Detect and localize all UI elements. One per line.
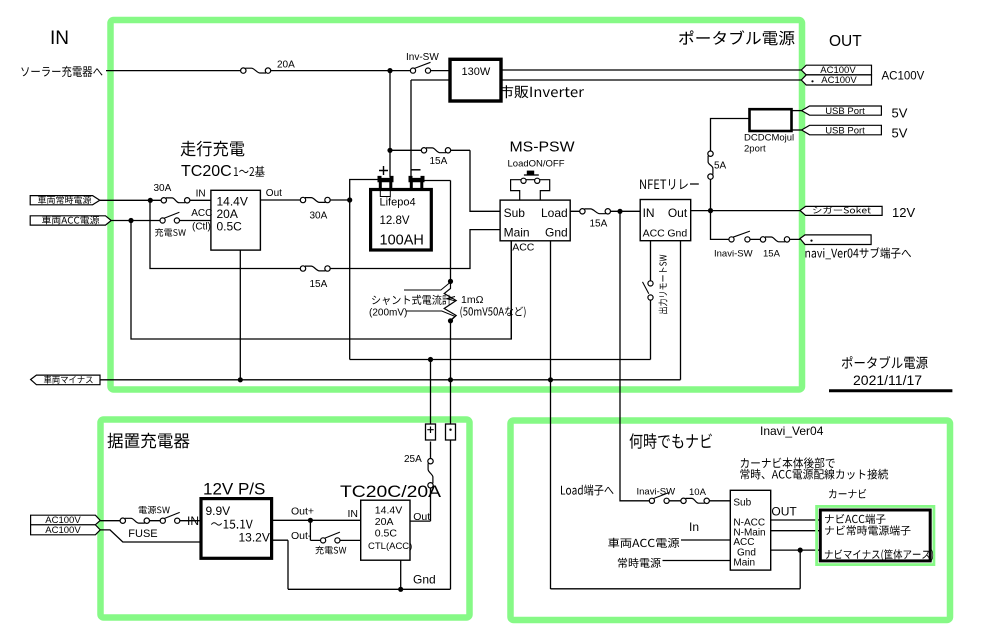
title ポータブル電源 (date block) xyxy=(842,356,928,369)
svg-text:Out-: Out- xyxy=(291,530,312,542)
shunt resistor 1mΩ xyxy=(444,281,456,320)
wire: Inavi Gnd to car-navi xyxy=(771,549,821,551)
svg-text:0.5C: 0.5C xyxy=(375,528,398,540)
svg-text:TC20C: TC20C xyxy=(181,163,232,180)
svg-text:14.4V: 14.4V xyxy=(375,505,402,517)
wire: battery + branch riser and positive bus xyxy=(350,180,378,360)
node: charge/battery+ junction xyxy=(347,197,352,202)
svg-text:Out+: Out+ xyxy=(291,506,314,518)
tag: AC100V output 1 xyxy=(801,65,871,75)
wire: ACC input line xyxy=(111,220,211,222)
svg-text:Gnd: Gnd xyxy=(545,226,568,240)
label + (battery plus) xyxy=(379,166,388,175)
node: 12V rail junction xyxy=(708,208,713,213)
wire: charger - riser xyxy=(450,380,452,590)
node: positive bus to charger + tap xyxy=(428,357,433,362)
title 据置充電器 xyxy=(108,433,190,449)
svg-text:Lifepo4: Lifepo4 xyxy=(380,197,416,209)
battery B1 Lifepo4 box xyxy=(371,190,432,251)
svg-text:OUT: OUT xyxy=(771,505,797,519)
wire: 12V rail down to Inavi-SW line xyxy=(711,211,801,240)
wire: nav gnd return xyxy=(551,550,801,589)
node: Gnd / Out- junction xyxy=(398,587,403,592)
svg-text:AC100V: AC100V xyxy=(45,525,81,536)
wire: Out+ line xyxy=(272,519,361,521)
svg-text:ACC: ACC xyxy=(643,227,666,239)
svg-text:15A: 15A xyxy=(590,219,608,230)
charge controller TC20C/20A box xyxy=(361,500,410,560)
switch 充電SW (charger) xyxy=(321,532,341,543)
fuse 25A (charger output) xyxy=(428,459,433,488)
tag: USB Port output 1 xyxy=(802,106,882,115)
svg-text:LoadON/OFF: LoadON/OFF xyxy=(508,159,565,170)
wire: inverter AC output L xyxy=(501,69,801,71)
svg-text:IN: IN xyxy=(196,189,206,200)
leader: shunt arrow xyxy=(446,297,455,301)
title 何時でもナビ xyxy=(630,433,712,449)
svg-text:13.2V: 13.2V xyxy=(239,530,270,544)
svg-text:Out: Out xyxy=(668,206,688,220)
relay NFET box xyxy=(640,200,691,241)
svg-text:100AH: 100AH xyxy=(380,233,424,249)
wire: ACC line down to MS-PSW ACC pin xyxy=(131,221,511,340)
fuse 30A (charge output) xyxy=(300,197,330,202)
fuse FUSE (AC input) xyxy=(120,518,149,523)
tag: 車両常時電源 input xyxy=(30,196,100,205)
node: Out+ / 充電SW branch xyxy=(308,518,313,523)
node: solar/battery junction xyxy=(387,68,392,73)
wire: Inavi N-Main to car-navi xyxy=(771,530,821,532)
wire: Inavi N-ACC to car-navi xyxy=(771,519,821,521)
svg-text:130W: 130W xyxy=(462,66,491,78)
svg-text:25A: 25A xyxy=(404,454,422,465)
label シャント式電流計 xyxy=(372,295,452,305)
wire: TC20C Gnd pin down xyxy=(239,250,241,380)
svg-text:Sub: Sub xyxy=(733,498,751,509)
inverter U1 box 130W xyxy=(450,59,501,101)
wire: TC20C output to battery xyxy=(260,199,349,201)
svg-text:20A: 20A xyxy=(375,516,394,528)
svg-text:TC20C/20A: TC20C/20A xyxy=(340,482,442,501)
wire: load line drop to Inavi box xyxy=(620,211,649,501)
wire: AC input line 2 xyxy=(100,530,201,542)
svg-text:ACC: ACC xyxy=(191,208,212,219)
interface Inavi box xyxy=(730,490,770,570)
svg-text:Sub: Sub xyxy=(504,206,526,220)
label 充電SW xyxy=(155,228,186,236)
note 常時、ACC電源配線カット接続 xyxy=(740,469,888,480)
wire: MS-PSW Gnd pin to minus bus and nav unit xyxy=(550,241,552,589)
title ポータブル電源 xyxy=(679,30,795,45)
svg-text:15A: 15A xyxy=(430,156,448,167)
wire: minus bus 車両マイナス xyxy=(100,379,681,381)
wire: MS-PSW Main pin to 15A fuse line xyxy=(150,200,500,268)
svg-text:5V: 5V xyxy=(892,106,908,121)
svg-text:12.8V: 12.8V xyxy=(380,215,410,227)
label ～15.1V xyxy=(211,520,253,529)
svg-text:DCDCMojul: DCDCMojul xyxy=(744,133,794,144)
wire: nav Main wire xyxy=(663,560,731,562)
label (50mV50Aなど) xyxy=(460,307,525,318)
wire: NFET ACC pin to remote switch xyxy=(650,241,652,360)
svg-text:2021/11/17: 2021/11/17 xyxy=(853,372,922,388)
wire: charger + riser xyxy=(430,360,432,425)
svg-text:ACC: ACC xyxy=(512,242,535,254)
switch 充電SW (drive charge enable) xyxy=(160,212,179,223)
node: car-navi gnd junction xyxy=(798,548,803,553)
svg-text:Load: Load xyxy=(541,206,568,220)
fuse 15A (navi line) xyxy=(760,237,789,242)
label 市販Inverter xyxy=(500,85,584,98)
svg-text:Main: Main xyxy=(504,226,530,240)
svg-text:1mΩ: 1mΩ xyxy=(461,294,484,306)
enclosure frame: Inavi unit (bottom-right) xyxy=(511,421,951,621)
fuse 15A (main line) xyxy=(300,266,330,271)
terminal + (charger output) xyxy=(426,424,436,440)
svg-text:10A: 10A xyxy=(689,487,707,498)
node: shunt top xyxy=(448,279,453,284)
svg-text:Inavi-SW: Inavi-SW xyxy=(714,249,753,260)
node: ACC branch junction xyxy=(128,218,133,223)
svg-text:12V P/S: 12V P/S xyxy=(203,480,265,499)
node: minus bus / shunt xyxy=(448,377,453,382)
svg-text:CTL(ACC): CTL(ACC) xyxy=(368,541,412,552)
svg-text:Inavi-SW: Inavi-SW xyxy=(637,487,676,498)
tag: AC100V output 2 xyxy=(801,75,871,85)
wire: NFET Gnd pin down xyxy=(680,241,682,380)
switch 電源SW xyxy=(160,512,180,523)
label 車両ACC電源 (nav) xyxy=(608,538,679,548)
svg-text:AC100V: AC100V xyxy=(821,75,857,86)
svg-text:Out: Out xyxy=(266,188,282,199)
fuse 20A (solar line) xyxy=(241,68,271,73)
charge controller TC20C box xyxy=(211,190,261,250)
wire: NFET Out to 12V rail xyxy=(691,210,800,212)
svg-text:In: In xyxy=(689,520,699,534)
svg-text:15A: 15A xyxy=(763,249,781,260)
svg-text:2port: 2port xyxy=(744,144,766,155)
wire: sub line down to MS-PSW Sub pin xyxy=(470,150,500,211)
tag: シガーSoket output xyxy=(800,206,882,215)
tag: AC100V input 1 (charger) xyxy=(31,515,101,525)
svg-text:USB Port: USB Port xyxy=(825,126,865,137)
wire: constant 12V input line xyxy=(100,199,211,201)
wire: junction down to battery + post xyxy=(389,71,391,177)
wire: battery - to shunt xyxy=(424,181,451,380)
label カーナビ xyxy=(829,489,866,499)
battery + terminal post xyxy=(378,176,394,190)
node: battery + branch xyxy=(387,148,392,153)
label Load端子へ xyxy=(561,484,614,495)
leader: shunt sense bottom xyxy=(406,311,455,320)
wire: Out- line xyxy=(272,540,451,589)
label 電源SW xyxy=(139,506,170,514)
wire: battery + to sub fuse xyxy=(390,149,470,151)
svg-text:15A: 15A xyxy=(310,279,328,290)
fuse 15A (sub line) xyxy=(421,148,450,153)
label navi_Ver04サブ端子へ xyxy=(806,247,912,259)
switch Inv-SW xyxy=(410,62,430,73)
title NFETリレー xyxy=(640,179,699,189)
note カーナビ本体後部で xyxy=(741,457,835,468)
wire: nav ACC wire xyxy=(681,539,730,541)
label ソーラー充電器へ (to solar charger) xyxy=(21,66,102,77)
tag: 車両マイナス xyxy=(31,375,100,385)
label 充電SW (charger) xyxy=(315,546,346,554)
wire: DCDC to USB tag 1 xyxy=(792,110,802,112)
tag: USB Port output 2 xyxy=(802,125,882,135)
wire: MS-PSW Load to NFET IN xyxy=(570,210,640,212)
terminal car-navi box xyxy=(820,510,930,561)
svg-text:Inavi_Ver04: Inavi_Ver04 xyxy=(760,424,824,438)
svg-text:5A: 5A xyxy=(714,161,727,172)
wire: Inavi-SW to 10A fuse xyxy=(669,500,730,502)
wire: 充電SW branch xyxy=(310,520,360,540)
node: minus bus / MS-PSW gnd xyxy=(548,377,553,382)
svg-text:USB Port: USB Port xyxy=(825,106,865,117)
wire: AC input line 1 xyxy=(100,520,201,522)
converter DCDC module box xyxy=(750,109,792,131)
fuse 15A (load) xyxy=(580,209,611,214)
switch MS-PSW module box xyxy=(500,200,570,241)
tag: navi sub output xyxy=(800,235,871,245)
svg-text:9.9V: 9.9V xyxy=(206,504,231,518)
label ナビ常時電源端子 xyxy=(825,525,910,535)
node: minus bus / TC20C gnd xyxy=(238,377,243,382)
svg-text:Gnd: Gnd xyxy=(413,573,436,587)
power supply 12V P/S box xyxy=(201,499,272,559)
svg-text:IN: IN xyxy=(643,206,655,220)
svg-text:IN: IN xyxy=(348,508,359,520)
svg-text:AC100V: AC100V xyxy=(882,71,925,83)
svg-text:OUT: OUT xyxy=(829,33,862,50)
label ナビマイナス(筐体アース) xyxy=(825,549,933,561)
svg-text:12V: 12V xyxy=(892,205,915,220)
tag: AC100V input 2 (charger) xyxy=(31,525,101,535)
svg-text:20A: 20A xyxy=(277,60,295,71)
wire: DCDC to USB tag 2 xyxy=(792,129,802,131)
tag: 車両ACC電源 input xyxy=(30,216,111,225)
node: load line junction xyxy=(617,209,622,214)
wire: TC20C/20A Gnd pin xyxy=(400,560,402,589)
label 常時電源 (nav) xyxy=(618,558,661,568)
switch 出力リモートSW xyxy=(643,282,649,294)
label − (battery minus) xyxy=(411,169,421,171)
svg-text:Main: Main xyxy=(733,557,755,568)
svg-text:5V: 5V xyxy=(892,125,908,140)
svg-text:IN: IN xyxy=(187,514,199,528)
svg-text:30A: 30A xyxy=(154,183,172,194)
svg-text:Inv-SW: Inv-SW xyxy=(406,52,439,63)
node: shunt bottom xyxy=(448,318,453,323)
label 出力リモートSW (vertical) xyxy=(659,255,668,314)
svg-text:MS-PSW: MS-PSW xyxy=(510,139,576,156)
svg-text:Gnd: Gnd xyxy=(667,227,687,239)
switch Inavi-SW (main box) xyxy=(729,231,750,242)
leader: shunt sense top xyxy=(404,283,449,290)
battery - terminal post xyxy=(409,176,425,190)
switch Inavi-SW (nav box) xyxy=(649,493,669,504)
svg-text:(200mV): (200mV) xyxy=(369,308,407,319)
node: constant line junction xyxy=(148,198,153,203)
svg-text:0.5C: 0.5C xyxy=(217,220,243,234)
toggle switch LoadON/OFF xyxy=(511,180,550,200)
fuse 5A (DCDC feed) xyxy=(708,151,713,179)
svg-text:(Ctl): (Ctl) xyxy=(192,222,211,233)
fuse 30A (input) xyxy=(161,198,190,203)
svg-text:30A: 30A xyxy=(310,210,328,221)
wire: inverter AC output N xyxy=(501,79,801,81)
terminal · (charger negative) xyxy=(446,424,456,440)
enclosure frame: portable power unit (main) xyxy=(111,20,803,390)
wire: MS-PSW ACC pin stub xyxy=(510,241,512,339)
underline (date block) xyxy=(829,389,952,392)
title 走行充電 (drive charging) xyxy=(181,141,245,157)
wire: 12V rail up to 5A fuse and DCDC xyxy=(711,119,750,211)
svg-text:N-ACC: N-ACC xyxy=(733,517,765,528)
svg-text:FUSE: FUSE xyxy=(128,528,157,540)
fuse 10A (nav) xyxy=(681,498,710,503)
wire: charger output up xyxy=(410,442,431,522)
enclosure frame: stationary charger (bottom-left) xyxy=(101,420,470,618)
wire: inverter DC negative lead xyxy=(411,80,450,177)
label ナビACC端子 xyxy=(825,514,886,524)
wire: solar input line xyxy=(106,70,450,72)
wire: battery + post inner detail xyxy=(380,190,390,197)
svg-text:IN: IN xyxy=(50,28,69,49)
wire: positive bus xyxy=(350,359,651,361)
terminal car-navi box (green outline) xyxy=(817,506,934,564)
